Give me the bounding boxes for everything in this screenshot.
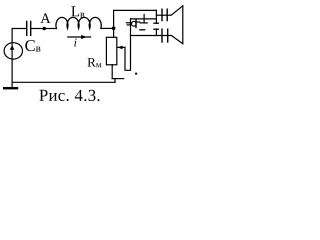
inductor L1 coil xyxy=(56,17,101,28)
horn top diagonal xyxy=(171,6,183,15)
svg-text:Рис. 4.3.: Рис. 4.3. xyxy=(39,86,101,105)
label A xyxy=(40,11,51,27)
svg-text:Св: Св xyxy=(25,36,41,55)
capacitor C2 top plate xyxy=(154,22,159,24)
caption xyxy=(39,86,101,105)
label L_B xyxy=(71,4,85,20)
wire top-left from source corner to capacitor xyxy=(12,28,26,30)
capacitor C2 bottom lead xyxy=(155,29,157,35)
potentiometer wiper arrow xyxy=(117,46,125,48)
telephone bottom coil bar 1 xyxy=(161,29,163,42)
ground stub xyxy=(11,82,13,87)
period dot xyxy=(135,73,137,75)
detector box left edge xyxy=(130,19,132,36)
junction node dot xyxy=(112,26,116,30)
horn bottom diagonal xyxy=(171,36,182,44)
bottom rail wire xyxy=(12,81,115,83)
detector plate stub xyxy=(137,21,140,23)
svg-text:А: А xyxy=(40,11,51,27)
telephone top coil bar 1 xyxy=(161,9,163,20)
wire node A to coil xyxy=(44,28,56,30)
svg-text:i: i xyxy=(74,35,77,49)
wire bottom link line xyxy=(112,78,124,80)
label R_M xyxy=(87,55,102,70)
resistor bottom stub xyxy=(111,65,113,79)
detector box top edge xyxy=(131,18,157,20)
detector dash mark xyxy=(140,29,145,31)
label i xyxy=(74,35,77,49)
label C_B xyxy=(25,36,41,55)
capacitor C2 bottom plate xyxy=(154,28,159,30)
detector lead tick upper xyxy=(126,22,131,24)
svg-text:Rм: Rм xyxy=(87,55,102,70)
node A junction dot xyxy=(42,27,46,31)
resistor R_M body xyxy=(106,37,116,65)
current arrow i xyxy=(68,36,91,38)
detector spring loop xyxy=(131,21,136,26)
wire bottom rail step xyxy=(114,79,116,83)
detector holder stem xyxy=(143,14,145,23)
telephone top lead xyxy=(156,14,171,16)
ground bar xyxy=(4,87,17,89)
telephone bottom coil bar 2 xyxy=(167,29,169,42)
capacitor C2 top lead from corner xyxy=(155,10,157,23)
wire capacitor to node A xyxy=(31,28,44,30)
wire junction down to resistor top xyxy=(113,28,115,37)
detector holder crossbar xyxy=(140,22,147,24)
telephone top coil bar 2 xyxy=(166,9,168,20)
wiper wire down, right, up to detector bottom line xyxy=(125,36,131,71)
wire coil to junction xyxy=(101,27,114,29)
horn right edge xyxy=(182,6,184,44)
detector lead tick lower xyxy=(127,24,130,26)
current source vertical wire through xyxy=(11,29,13,83)
detector bottom line and phone bottom lead xyxy=(131,35,172,37)
wire junction up and top wire right to detector corner xyxy=(114,10,157,28)
current source G1 circle xyxy=(4,43,22,59)
capacitor C1 plates xyxy=(27,22,31,36)
current source arrow head xyxy=(10,45,15,50)
svg-text:Lв: Lв xyxy=(71,4,85,20)
detector crystal plate bar xyxy=(135,20,137,28)
